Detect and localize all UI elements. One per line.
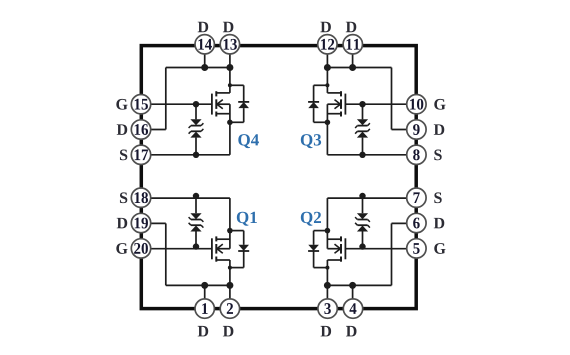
pin 1: [195, 299, 214, 318]
pin 14 label D: [198, 22, 208, 33]
wire pin 8 source lead: [327, 154, 416, 156]
junction Q1 source / body-diode: [227, 228, 233, 234]
wire Q2 source vertical: [326, 198, 328, 231]
pin 3: [318, 299, 337, 318]
wire Q2 drain vertical: [326, 268, 328, 286]
pin 18: [131, 188, 150, 207]
pin 11: [343, 35, 362, 54]
wire pin 5 gate lead: [345, 248, 416, 250]
package body outline: [141, 46, 416, 309]
pin 13 label D: [223, 22, 233, 33]
diode Q1 body diode: [230, 231, 249, 268]
wire pin 15 gate lead: [141, 103, 212, 105]
pin 10 label G: [434, 99, 445, 110]
pin 12: [318, 35, 337, 54]
junction Q3 gate / zener: [359, 101, 365, 107]
pin 6 label D: [434, 218, 444, 229]
wire pin 19 stub: [141, 222, 166, 224]
pin 15 label G: [116, 99, 127, 110]
transistor Q3 (N-ch MOSFET): [327, 91, 345, 122]
wire Q1 drain bus: [166, 284, 230, 286]
wire pin 11 stub: [352, 44, 354, 67]
wire Q2 drain to channel: [326, 260, 328, 268]
pin 4: [343, 299, 362, 318]
wire pin 17 source lead: [141, 154, 230, 156]
transistor Q4 (N-ch MOSFET): [212, 91, 230, 122]
junction Q4 source / zener: [193, 152, 199, 158]
wire Q2 drain bus: [327, 284, 391, 286]
wire Q2 bus-to-pin-6 leg: [391, 223, 393, 285]
junction Q4 drain bus / pin 13: [226, 64, 233, 71]
pin 20: [131, 239, 150, 258]
wire Q3 drain to channel: [326, 85, 328, 93]
pin 1 label D: [198, 326, 208, 337]
wire pin 13 stub: [229, 44, 231, 67]
pin 9: [407, 120, 426, 139]
pin 13: [220, 35, 239, 54]
wire Q4 source vertical: [229, 122, 231, 155]
wire pin 1 stub: [204, 285, 206, 308]
label Q4: [238, 134, 259, 148]
wire pin 7 source lead: [327, 197, 416, 199]
pin 5 label G: [434, 243, 445, 254]
wire Q1 source vertical: [229, 198, 231, 231]
pin 16 label D: [117, 124, 127, 135]
wire Q3 bus-to-pin-9 leg: [391, 68, 393, 130]
wire Q3 drain bus: [327, 67, 391, 69]
junction Q4 source / body-diode: [227, 120, 233, 126]
pin 19 label D: [117, 218, 127, 229]
pin 18 label S: [120, 192, 127, 203]
pin 5: [407, 239, 426, 258]
pin 11 label D: [346, 22, 356, 33]
diode Q4 body diode: [230, 85, 249, 122]
wire Q4 drain to channel: [229, 85, 231, 93]
label Q3: [301, 134, 321, 148]
wire pin 10 gate lead: [345, 103, 416, 105]
wire Q4 drain bus: [166, 67, 230, 69]
pin 19: [131, 213, 150, 232]
pin 17 label S: [120, 150, 127, 161]
zener pair Q2 gate protection: [355, 198, 370, 249]
junction Q1 drain bus / pin 1: [201, 282, 208, 289]
wire pin 2 stub: [229, 285, 231, 308]
pin 8 label S: [434, 150, 441, 161]
junction Q2 gate / zener: [359, 243, 365, 249]
pin 6: [407, 213, 426, 232]
junction Q4 drain bus / pin 14: [201, 64, 208, 71]
wire Q4 drain vertical: [229, 68, 231, 86]
diode Q2 body diode: [308, 231, 327, 268]
pin 16: [131, 120, 150, 139]
junction Q2 source / body-diode: [325, 228, 331, 234]
wire Q3 drain vertical: [326, 68, 328, 86]
junction Q4 gate / zener: [193, 101, 199, 107]
wire pin 3 stub: [326, 285, 328, 308]
wire Q1 bus-to-pin-19 leg: [165, 223, 167, 285]
wire Q4 bus-to-pin-16 leg: [165, 68, 167, 130]
wire pin 9 stub: [392, 129, 417, 131]
junction Q2 drain bus / pin 4: [349, 282, 356, 289]
pin 14: [195, 35, 214, 54]
wire pin 14 stub: [204, 44, 206, 67]
pin 7 label S: [434, 192, 441, 203]
wire pin 16 stub: [141, 129, 166, 131]
wire pin 12 stub: [326, 44, 328, 67]
pin 15: [131, 95, 150, 114]
diode Q3 body diode: [308, 85, 327, 122]
junction Q3 drain / body-diode: [325, 83, 329, 87]
zener pair Q3 gate protection: [355, 104, 370, 155]
pin 9 label D: [434, 124, 444, 135]
transistor Q1 (N-ch MOSFET): [212, 231, 230, 262]
pin 17: [131, 145, 150, 164]
junction Q3 source / body-diode: [325, 120, 331, 126]
pin 20 label G: [116, 243, 127, 254]
junction Q1 source / zener: [193, 193, 199, 199]
junction Q2 source / zener: [359, 193, 365, 199]
pin 12 label D: [320, 22, 330, 33]
wire pin 6 stub: [392, 222, 417, 224]
junction Q1 drain bus / pin 2: [226, 282, 233, 289]
label Q1: [237, 212, 257, 226]
pin 2 label D: [223, 326, 233, 337]
pin 10: [407, 95, 426, 114]
pin 4 label D: [346, 326, 356, 337]
wire pin 18 source lead: [141, 197, 230, 199]
pin 7: [407, 188, 426, 207]
pin 8: [407, 145, 426, 164]
pin 2: [220, 299, 239, 318]
wire Q3 source vertical: [326, 122, 328, 155]
junction Q3 drain bus / pin 12: [324, 64, 331, 71]
junction Q3 drain bus / pin 11: [349, 64, 356, 71]
junction Q2 drain / body-diode: [325, 266, 329, 270]
wire pin 20 gate lead: [141, 248, 212, 250]
label Q2: [301, 212, 321, 226]
junction Q1 gate / zener: [193, 243, 199, 249]
junction Q4 drain / body-diode: [228, 83, 232, 87]
wire Q1 drain to channel: [229, 260, 231, 268]
wire pin 4 stub: [352, 285, 354, 308]
junction Q3 source / zener: [359, 152, 365, 158]
zener pair Q1 gate protection: [189, 198, 204, 249]
junction Q2 drain bus / pin 3: [324, 282, 331, 289]
zener pair Q4 gate protection: [189, 104, 204, 155]
pin 3 label D: [321, 326, 331, 337]
transistor Q2 (N-ch MOSFET): [327, 231, 345, 262]
wire Q1 drain vertical: [229, 268, 231, 286]
junction Q1 drain / body-diode: [228, 266, 232, 270]
